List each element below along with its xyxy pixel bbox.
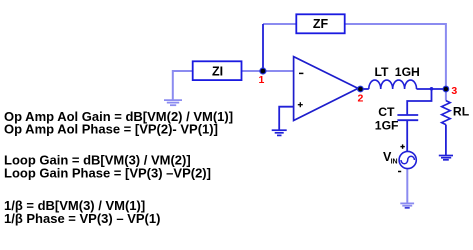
svg-text:RL: RL — [453, 104, 470, 118]
svg-text:Loop Gain Phase = [VP(3) –VP(2: Loop Gain Phase = [VP(3) –VP(2)] — [4, 165, 211, 180]
svg-text:3: 3 — [451, 85, 457, 97]
svg-text:LT: LT — [375, 65, 390, 79]
svg-text:ZI: ZI — [212, 64, 223, 78]
svg-text:1GH: 1GH — [395, 65, 420, 79]
svg-text:1GF: 1GF — [375, 118, 399, 132]
svg-text:2: 2 — [357, 93, 363, 105]
svg-text:IN: IN — [391, 158, 398, 165]
svg-text:CT: CT — [378, 105, 395, 119]
svg-text:1/β Phase = VP(3) – VP(1): 1/β Phase = VP(3) – VP(1) — [4, 211, 160, 226]
svg-text:ZF: ZF — [313, 17, 329, 31]
svg-text:1: 1 — [258, 74, 264, 86]
svg-text:Op Amp Aol Phase = [VP(2)- VP(: Op Amp Aol Phase = [VP(2)- VP(1)] — [4, 122, 218, 137]
